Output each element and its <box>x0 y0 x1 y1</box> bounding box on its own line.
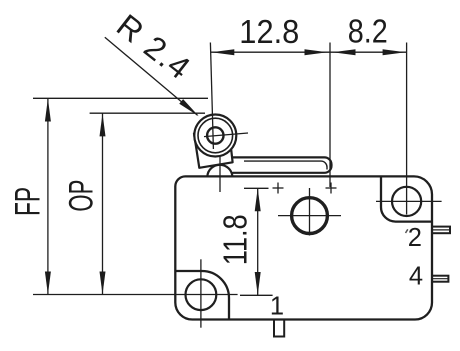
svg-text:11.8: 11.8 <box>217 214 254 265</box>
svg-text:12.8: 12.8 <box>239 13 299 50</box>
svg-text:8.2: 8.2 <box>348 13 388 50</box>
svg-text:1: 1 <box>270 293 284 321</box>
svg-text:4: 4 <box>409 263 423 291</box>
svg-text:2: 2 <box>408 224 422 252</box>
svg-text:OP: OP <box>62 180 100 212</box>
svg-text:FP: FP <box>8 187 47 216</box>
